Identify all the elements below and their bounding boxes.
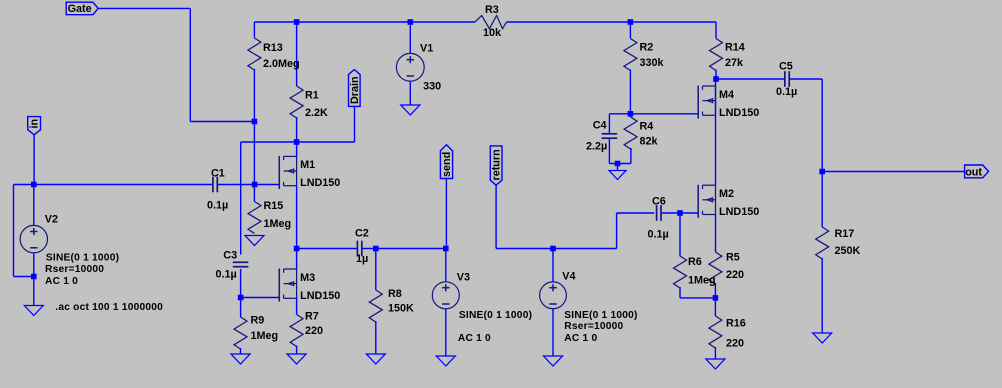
svg-text:C6: C6 <box>652 196 666 208</box>
svg-text:C4: C4 <box>593 120 607 132</box>
svg-text:Rser=10000: Rser=10000 <box>45 264 104 275</box>
svg-text:Gate: Gate <box>68 3 92 15</box>
svg-text:0.1µ: 0.1µ <box>207 200 228 212</box>
svg-text:AC 1 0: AC 1 0 <box>564 333 597 344</box>
svg-text:LND150: LND150 <box>300 177 340 189</box>
svg-text:150K: 150K <box>388 303 414 315</box>
svg-text:330k: 330k <box>640 57 665 69</box>
svg-text:0.1µ: 0.1µ <box>216 269 237 281</box>
svg-text:R6: R6 <box>688 256 702 268</box>
svg-text:return: return <box>490 149 502 180</box>
svg-text:V2: V2 <box>45 214 58 226</box>
svg-text:2.2K: 2.2K <box>305 107 328 119</box>
svg-text:M4: M4 <box>719 89 734 101</box>
svg-text:1Meg: 1Meg <box>251 330 279 342</box>
svg-text:1µ: 1µ <box>356 253 368 265</box>
svg-text:send: send <box>441 152 453 177</box>
svg-text:R1: R1 <box>305 90 319 102</box>
svg-text:R7: R7 <box>305 311 319 323</box>
svg-text:LND150: LND150 <box>719 107 759 119</box>
svg-text:AC 1 0: AC 1 0 <box>458 333 491 344</box>
svg-text:2.2µ: 2.2µ <box>586 141 607 153</box>
svg-text:.ac oct 100 1 1000000: .ac oct 100 1 1000000 <box>55 302 163 313</box>
svg-text:C1: C1 <box>211 167 225 179</box>
svg-text:1Meg: 1Meg <box>688 275 716 287</box>
svg-text:R17: R17 <box>835 228 855 240</box>
svg-text:R2: R2 <box>640 42 654 54</box>
svg-text:LND150: LND150 <box>719 206 759 218</box>
svg-text:SINE(0 1 1000): SINE(0 1 1000) <box>459 310 532 321</box>
svg-text:10k: 10k <box>483 27 502 39</box>
svg-text:R3: R3 <box>485 4 499 16</box>
svg-text:250K: 250K <box>835 245 861 257</box>
svg-text:0.1µ: 0.1µ <box>776 86 797 98</box>
svg-text:V4: V4 <box>562 271 575 283</box>
svg-text:220: 220 <box>305 325 323 337</box>
svg-text:1Meg: 1Meg <box>264 218 292 230</box>
svg-text:out: out <box>965 166 982 178</box>
svg-text:AC 1 0: AC 1 0 <box>45 276 78 287</box>
svg-text:R15: R15 <box>264 200 284 212</box>
svg-text:in: in <box>28 119 40 129</box>
svg-text:R9: R9 <box>251 315 265 327</box>
svg-text:SINE(0 1 1000): SINE(0 1 1000) <box>46 252 119 263</box>
svg-text:R4: R4 <box>640 121 654 133</box>
svg-text:Drain: Drain <box>349 76 361 104</box>
svg-text:2.0Meg: 2.0Meg <box>263 58 300 70</box>
svg-text:R14: R14 <box>725 42 745 54</box>
svg-text:82k: 82k <box>640 136 659 148</box>
svg-text:330: 330 <box>423 81 441 93</box>
svg-text:SINE(0 1 1000): SINE(0 1 1000) <box>564 310 637 321</box>
svg-text:M3: M3 <box>300 272 315 284</box>
svg-text:LND150: LND150 <box>300 290 340 302</box>
svg-text:R5: R5 <box>726 252 740 264</box>
svg-text:R13: R13 <box>263 42 283 54</box>
svg-text:M1: M1 <box>300 159 315 171</box>
svg-text:C2: C2 <box>355 228 369 240</box>
svg-text:C5: C5 <box>779 61 793 73</box>
svg-text:R8: R8 <box>388 288 402 300</box>
svg-text:Rser=10000: Rser=10000 <box>564 321 623 332</box>
svg-text:V3: V3 <box>457 271 470 283</box>
svg-text:220: 220 <box>726 338 744 350</box>
svg-text:M2: M2 <box>719 188 734 200</box>
svg-text:220: 220 <box>726 269 744 281</box>
svg-text:27k: 27k <box>725 57 744 69</box>
svg-text:0.1µ: 0.1µ <box>648 229 669 241</box>
svg-text:R16: R16 <box>726 318 746 330</box>
svg-text:C3: C3 <box>223 250 237 262</box>
svg-text:V1: V1 <box>420 42 433 54</box>
